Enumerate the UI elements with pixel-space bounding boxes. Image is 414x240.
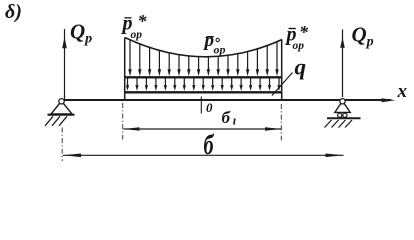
short load arrows [127,78,129,85]
strip bottom line [124,91,282,93]
Qp right arrow [342,30,344,98]
b1 dimension line [124,128,282,130]
svg-text:ор: ор [214,43,226,57]
strip top line [124,76,282,78]
left label p*op [121,11,148,41]
left support pin [45,99,75,126]
long load arrows [129,40,131,70]
right support roller [325,99,361,128]
svg-text:б: б [204,130,215,161]
b1 extension line left [122,103,124,140]
x-axis arrowhead [382,98,396,102]
svg-text:ı: ı [233,114,236,128]
svg-text:p: p [203,30,215,51]
svg-text:q: q [295,55,307,80]
svg-text:x: x [397,81,408,102]
svg-text:0: 0 [206,100,213,115]
center tick at 0 [200,97,202,114]
svg-text:δ): δ) [5,1,22,23]
left support extension line (b dim) [61,128,63,162]
q leader line [272,73,293,96]
beam / x-axis line [62,99,391,101]
load left edge [124,38,126,101]
b1 extension line right [280,104,282,141]
middle label p&#176;op [203,30,226,57]
svg-text:ор: ор [293,40,305,52]
b dimension line [63,154,344,156]
right label p*op [285,22,310,52]
svg-text:ор: ор [131,29,143,41]
svg-text:Qp: Qp [70,20,92,47]
svg-text:б: б [222,108,232,127]
load envelope curve [125,38,282,57]
Qp left arrow [64,29,66,100]
load right edge [281,40,283,101]
svg-text:Qp: Qp [352,23,374,50]
